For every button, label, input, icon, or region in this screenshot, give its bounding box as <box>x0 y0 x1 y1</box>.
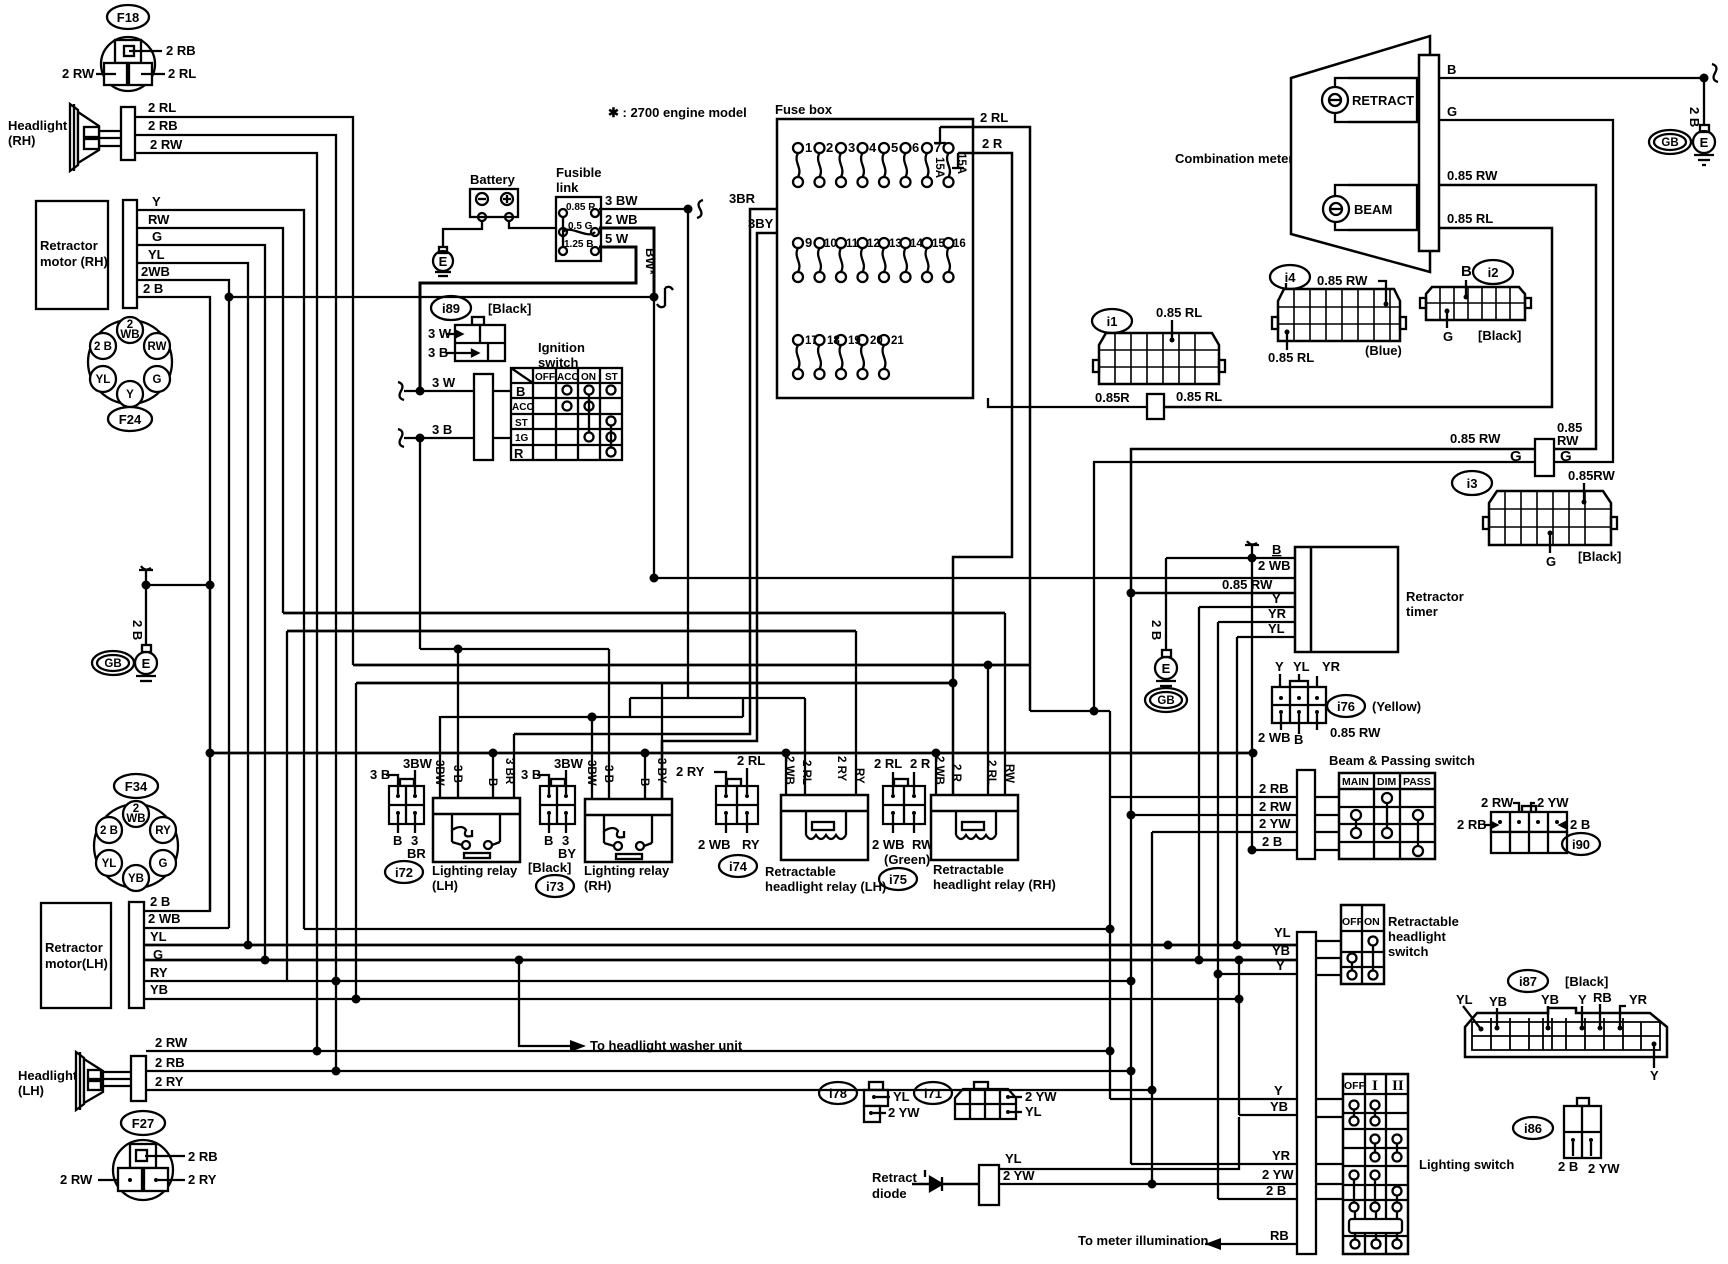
wire 2YW vertical <box>1151 832 1153 1184</box>
wire 2RL from fuse box <box>934 110 1030 711</box>
svg-text:2 RB: 2 RB <box>148 118 178 133</box>
svg-text:G: G <box>1443 329 1453 344</box>
svg-text:2 RW: 2 RW <box>1259 799 1292 814</box>
wire 3BW drop to relays <box>687 209 689 698</box>
svg-text:5 W: 5 W <box>605 231 629 246</box>
svg-text:Y: Y <box>1650 1068 1659 1083</box>
svg-text:2 B: 2 B <box>130 620 145 640</box>
svg-text:i78: i78 <box>829 1086 847 1101</box>
svg-text:YL: YL <box>150 929 167 944</box>
svg-text:YL: YL <box>1268 621 1285 636</box>
svg-text:motor(LH): motor(LH) <box>45 956 108 971</box>
wire 2B retractor LH <box>144 585 210 911</box>
svg-text:RY: RY <box>853 768 865 784</box>
svg-text:i87: i87 <box>1519 974 1537 989</box>
connector i86 <box>1513 1098 1620 1176</box>
wire B from combination meter <box>1439 62 1704 78</box>
wire YL retractor LH <box>150 929 167 944</box>
svg-text:0.85 RW: 0.85 RW <box>1450 431 1501 446</box>
svg-text:YB: YB <box>1541 992 1559 1007</box>
svg-text:(LH): (LH) <box>432 878 458 893</box>
svg-text:Battery: Battery <box>470 172 516 187</box>
svg-text:(RH): (RH) <box>584 878 611 893</box>
connector i74 <box>676 753 765 877</box>
svg-text:OFF: OFF <box>1344 1080 1366 1092</box>
junction at fusible link drop <box>650 293 659 302</box>
svg-text:2 B: 2 B <box>150 894 170 909</box>
svg-text:Y: Y <box>1274 1083 1283 1098</box>
wire YB retractor LH <box>144 982 1244 1004</box>
wire YL retractor RH <box>137 247 248 946</box>
svg-text:(Yellow): (Yellow) <box>1372 699 1421 714</box>
svg-text:2 YW: 2 YW <box>1262 1167 1294 1182</box>
svg-text:Y: Y <box>126 389 134 401</box>
connector i73 <box>521 756 584 897</box>
wire RW net to relay LH RY <box>855 631 857 795</box>
svg-text:17: 17 <box>805 335 818 347</box>
svg-text:2 B: 2 B <box>1262 834 1282 849</box>
connector bar bottom right <box>1297 932 1316 1254</box>
ground GB oval left <box>92 651 134 675</box>
svg-text:(LH): (LH) <box>18 1083 44 1098</box>
junction 2WB i75 <box>932 749 941 758</box>
wire 3BW from fusible link <box>599 193 688 209</box>
svg-text:3 B: 3 B <box>370 767 390 782</box>
svg-text:3: 3 <box>848 140 855 155</box>
wire Y to retract switch <box>1218 958 1341 975</box>
junction RY retractor LH <box>332 977 341 986</box>
svg-text:2 WB: 2 WB <box>933 756 945 785</box>
svg-text:2 YW: 2 YW <box>1259 816 1291 831</box>
svg-text:YB: YB <box>128 873 144 885</box>
svg-text:YL: YL <box>1274 925 1291 940</box>
junction B relay LH <box>489 749 498 758</box>
ground E left <box>135 645 157 681</box>
svg-text:0.85 RW: 0.85 RW <box>1447 168 1498 183</box>
svg-text:To meter illumination: To meter illumination <box>1078 1233 1209 1248</box>
svg-text:Fuse box: Fuse box <box>775 102 833 117</box>
svg-text:F27: F27 <box>132 1116 154 1131</box>
inline connector 0.85R/0.85RL <box>1147 394 1164 419</box>
wire Y to timer <box>1199 591 1295 607</box>
svg-text:2 R: 2 R <box>950 764 962 783</box>
continuation mark 3BW <box>697 200 703 218</box>
svg-text:9: 9 <box>805 235 812 250</box>
svg-text:2 YW: 2 YW <box>888 1105 920 1120</box>
svg-text:F18: F18 <box>117 10 139 25</box>
svg-text:4: 4 <box>869 140 877 155</box>
svg-text:2 RW: 2 RW <box>150 137 183 152</box>
wire 0.85RW net vertical lower <box>1130 593 1132 1164</box>
svg-text:WB: WB <box>120 329 139 341</box>
svg-text:RB: RB <box>1593 990 1612 1005</box>
svg-text:2 RY: 2 RY <box>188 1172 217 1187</box>
svg-text:2 RW: 2 RW <box>155 1035 188 1050</box>
svg-text:YR: YR <box>1629 992 1648 1007</box>
svg-text:headlight relay (RH): headlight relay (RH) <box>933 877 1056 892</box>
lighting relay RH <box>584 758 672 893</box>
wire 3B net horizontal <box>420 648 609 650</box>
svg-text:[Black]: [Black] <box>528 860 571 875</box>
svg-text:15: 15 <box>932 238 945 250</box>
ground E right <box>1693 125 1715 165</box>
wire 0.85RW to timer <box>1131 577 1295 593</box>
wire 2RB to beam switch <box>1110 781 1339 797</box>
svg-text:2WB: 2WB <box>141 264 170 279</box>
svg-text:2 YW: 2 YW <box>1537 795 1569 810</box>
svg-text:2 YW: 2 YW <box>1588 1161 1620 1176</box>
svg-text:i76: i76 <box>1337 699 1355 714</box>
svg-text:GB: GB <box>104 658 121 670</box>
svg-text:3 W: 3 W <box>432 375 456 390</box>
svg-text:i89: i89 <box>442 301 460 316</box>
wire 2RW headlight RH <box>135 137 317 1051</box>
junction YB retract switch <box>1195 956 1204 965</box>
svg-text:5: 5 <box>891 140 898 155</box>
svg-text:i75: i75 <box>889 872 907 887</box>
svg-text:1.25 B: 1.25 B <box>564 239 593 250</box>
svg-text:Headlight: Headlight <box>18 1068 78 1083</box>
svg-text:2 WB: 2 WB <box>698 837 731 852</box>
svg-text:Y: Y <box>1272 591 1281 606</box>
svg-text:B: B <box>1461 263 1472 280</box>
svg-text:3 B: 3 B <box>432 422 452 437</box>
svg-text:PASS: PASS <box>1403 776 1431 788</box>
svg-text:RW: RW <box>148 341 167 353</box>
svg-text:3BW: 3BW <box>403 756 433 771</box>
combination meter <box>1175 36 1439 272</box>
svg-text:Lighting relay: Lighting relay <box>584 863 670 878</box>
wire 2B to beam switch <box>1252 834 1339 850</box>
junction YL retract switch <box>1164 941 1173 950</box>
ground E battery <box>433 247 453 276</box>
svg-text:0.85R: 0.85R <box>1095 390 1130 405</box>
svg-text:2 RY: 2 RY <box>835 756 847 781</box>
svg-text:2 RW: 2 RW <box>60 1172 93 1187</box>
svg-text:E: E <box>1162 661 1171 676</box>
connector F27 <box>60 1111 218 1200</box>
svg-text:2 WB: 2 WB <box>1258 730 1291 745</box>
svg-text:To headlight washer unit: To headlight washer unit <box>590 1038 743 1053</box>
svg-text:12: 12 <box>867 238 880 250</box>
wire 2B retractor RH <box>137 281 210 911</box>
wire YB to lighting switch <box>1235 956 1344 1118</box>
wire YR from timer down <box>1217 622 1219 974</box>
wire YR to lighting switch <box>1131 1148 1343 1164</box>
svg-text:link: link <box>556 180 579 195</box>
wire B to relay RH <box>644 753 646 799</box>
junction 2RB beam feed <box>1106 925 1115 934</box>
svg-text:0.85 RW: 0.85 RW <box>1222 577 1273 592</box>
svg-text:GB: GB <box>1661 137 1678 149</box>
svg-text:i4: i4 <box>1285 270 1297 285</box>
svg-text:Combination meter: Combination meter <box>1175 151 1293 166</box>
to headlight washer unit <box>519 960 743 1053</box>
svg-text:18: 18 <box>827 335 840 347</box>
svg-text:0.85 RL: 0.85 RL <box>1156 305 1202 320</box>
junction B bus left <box>206 749 215 758</box>
wire G run left from inline connector <box>1094 462 1535 711</box>
svg-text:2 RW: 2 RW <box>1481 795 1514 810</box>
ignition switch table <box>493 368 622 461</box>
wire 2RW to beam switch <box>1131 799 1339 815</box>
wire YR to timer <box>1218 606 1295 622</box>
svg-text:[Black]: [Black] <box>1578 549 1621 564</box>
svg-text:0.85 RL: 0.85 RL <box>1447 211 1493 226</box>
svg-text:10: 10 <box>824 238 837 250</box>
svg-text:2 WB: 2 WB <box>872 837 905 852</box>
wire 3BY from fuse box <box>662 216 777 799</box>
svg-text:diode: diode <box>872 1186 907 1201</box>
svg-text:0.85 RW: 0.85 RW <box>1330 725 1381 740</box>
wire 0.85RL from combination meter <box>1164 211 1552 407</box>
svg-text:switch: switch <box>1388 944 1429 959</box>
svg-text:I: I <box>1372 1078 1378 1094</box>
svg-text:YL: YL <box>893 1089 910 1104</box>
wire 0.85RW from combination meter <box>1439 168 1596 449</box>
svg-text:RY: RY <box>155 825 171 837</box>
svg-text:YL: YL <box>96 374 111 386</box>
wire 2B to lighting switch <box>1214 970 1344 1200</box>
retractor motor (RH) <box>36 200 137 309</box>
wire 2B to ground GB <box>1687 78 1704 127</box>
svg-text:YB: YB <box>1489 994 1507 1009</box>
svg-text:B: B <box>1447 62 1456 77</box>
connector i72 <box>370 756 433 883</box>
svg-text:Retractable: Retractable <box>1388 914 1459 929</box>
svg-text:Retractor: Retractor <box>40 238 98 253</box>
wire 2RL net junction drop to relay RH <box>987 665 989 795</box>
junction B <box>1700 74 1709 83</box>
svg-text:F34: F34 <box>125 779 148 794</box>
svg-text:0.85 RL: 0.85 RL <box>1268 350 1314 365</box>
svg-text:13: 13 <box>889 238 902 250</box>
svg-text:2 WB: 2 WB <box>1258 558 1291 573</box>
retractable headlight switch <box>1341 905 1459 984</box>
wire 2RB headlight RH <box>135 118 336 1071</box>
svg-text:15A: 15A <box>955 153 967 174</box>
svg-text:R: R <box>514 446 524 461</box>
svg-text:2 B: 2 B <box>143 281 163 296</box>
svg-text:2 YW: 2 YW <box>1025 1089 1057 1104</box>
svg-text:3BY: 3BY <box>748 216 774 231</box>
svg-text:2 R: 2 R <box>982 136 1003 151</box>
svg-text:3BR: 3BR <box>729 191 756 206</box>
wire 2RY headlight LH <box>146 1074 1157 1095</box>
connector F34 <box>94 774 178 891</box>
svg-text:19: 19 <box>848 335 861 347</box>
svg-text:Lighting switch: Lighting switch <box>1419 1157 1514 1172</box>
wire 3BY to relay RH <box>661 683 663 799</box>
junction 2RW headlight LH <box>313 1047 322 1056</box>
svg-text:RY: RY <box>742 837 760 852</box>
svg-text:B: B <box>544 833 553 848</box>
wire 2WB run to battery area <box>229 296 654 298</box>
battery <box>470 172 518 221</box>
svg-text:2 WB: 2 WB <box>783 756 795 785</box>
svg-text:Retractor: Retractor <box>1406 589 1464 604</box>
junction 3BW <box>684 205 693 214</box>
svg-text:(Green): (Green) <box>884 852 930 867</box>
fuses 9-16 <box>793 235 966 282</box>
svg-text:YL: YL <box>148 247 165 262</box>
svg-text:2 RY: 2 RY <box>155 1074 184 1089</box>
svg-text:Y: Y <box>1578 992 1587 1007</box>
svg-text:2 WB: 2 WB <box>605 212 638 227</box>
svg-text:YR: YR <box>1322 659 1341 674</box>
svg-text:2 RL: 2 RL <box>980 110 1008 125</box>
wire 2WB net drop to B line <box>653 297 655 578</box>
junction 2RL relay RH <box>984 661 993 670</box>
fusible link <box>556 165 602 261</box>
svg-text:2 RL: 2 RL <box>148 100 176 115</box>
wire G retractor LH <box>153 947 163 962</box>
svg-text:YL: YL <box>1025 1104 1042 1119</box>
junction 2B beam <box>1248 846 1257 855</box>
svg-text:i86: i86 <box>1524 1121 1542 1136</box>
svg-text:G: G <box>1447 104 1457 119</box>
svg-text:i1: i1 <box>1107 314 1118 329</box>
svg-text:YL: YL <box>1456 992 1473 1007</box>
junction 2WB/2B <box>225 293 234 302</box>
wire YL to timer <box>1237 621 1295 637</box>
svg-text:BY: BY <box>558 846 576 861</box>
svg-text:G: G <box>153 947 163 962</box>
retract diode <box>872 1117 1239 1205</box>
svg-text:2 B: 2 B <box>1149 620 1164 640</box>
svg-text:Fusible: Fusible <box>556 165 602 180</box>
svg-text:B: B <box>1272 542 1281 557</box>
wire RB to lighting switch / to meter illumination <box>1205 1228 1297 1244</box>
connector i2 <box>1420 260 1531 344</box>
svg-text:[Black]: [Black] <box>488 301 531 316</box>
fuses 1-8 <box>793 140 967 187</box>
junction 0.85RW timer <box>1127 589 1136 598</box>
wire 2RL headlight RH <box>135 100 353 665</box>
svg-text:headlight relay (LH): headlight relay (LH) <box>765 879 886 894</box>
svg-text:G: G <box>152 229 162 244</box>
svg-text:2 B: 2 B <box>1570 817 1590 832</box>
indicator RETRACT <box>1322 78 1419 122</box>
ground stub 2B left <box>130 566 210 645</box>
wire battery minus to ground E <box>443 221 482 247</box>
svg-text:YR: YR <box>1272 1148 1291 1163</box>
svg-text:Y: Y <box>152 194 161 209</box>
wire 3BW to relay LH <box>439 716 441 798</box>
ignition switch connector bar <box>474 374 493 460</box>
connector i1 <box>1092 305 1225 405</box>
svg-text:21: 21 <box>891 335 904 347</box>
svg-text:1: 1 <box>805 140 812 155</box>
svg-text:Retract: Retract <box>872 1170 917 1185</box>
svg-text:(Blue): (Blue) <box>1365 343 1402 358</box>
wire 2B timer to ground <box>1149 558 1166 650</box>
connector i76 <box>1258 659 1421 747</box>
wire battery plus to fusible link <box>509 221 556 228</box>
wire 2WB to relay i74 <box>785 753 787 795</box>
svg-text:2 WB: 2 WB <box>148 911 181 926</box>
wire 3W to ignition switch <box>398 375 474 400</box>
ground E timer <box>1155 650 1177 686</box>
svg-text:ON: ON <box>581 372 596 383</box>
to meter illumination arrow <box>1078 1233 1221 1250</box>
svg-text:3BW: 3BW <box>554 756 584 771</box>
wire 0.85RW run left to timer area <box>1131 449 1535 593</box>
connector F18 <box>62 5 196 91</box>
svg-text:0.85 RL: 0.85 RL <box>1176 389 1222 404</box>
wire B to timer <box>1166 541 1295 558</box>
svg-text:II: II <box>1392 1078 1404 1094</box>
svg-text:2 RB: 2 RB <box>166 43 196 58</box>
svg-text:(RH): (RH) <box>8 133 35 148</box>
svg-text:BW*: BW* <box>643 248 658 276</box>
wire B bus <box>210 752 1253 755</box>
svg-text:E: E <box>1700 135 1709 150</box>
ground GB oval right <box>1649 130 1691 154</box>
wire RW retractor RH <box>137 212 283 613</box>
svg-text:headlight: headlight <box>1388 929 1446 944</box>
wire Y net horizontal <box>283 612 1005 615</box>
ground GB oval timer <box>1145 688 1187 712</box>
svg-text:i90: i90 <box>1572 837 1590 852</box>
svg-text:3 B: 3 B <box>521 767 541 782</box>
wire Y from timer down <box>1198 607 1200 959</box>
svg-text:F24: F24 <box>119 412 142 427</box>
svg-text:2 RB: 2 RB <box>188 1149 218 1164</box>
wire YL to retract switch <box>144 925 1341 945</box>
connector i90 <box>1457 795 1600 855</box>
svg-text:Lighting relay: Lighting relay <box>432 863 518 878</box>
svg-text:i3: i3 <box>1467 476 1478 491</box>
svg-text:Beam & Passing switch: Beam & Passing switch <box>1329 753 1475 768</box>
svg-text:DIM: DIM <box>1377 776 1397 788</box>
svg-text:2 R: 2 R <box>910 756 931 771</box>
svg-text:0.85 RW: 0.85 RW <box>1317 273 1368 288</box>
wire G from combination meter <box>1439 104 1613 462</box>
svg-text:16: 16 <box>953 238 966 250</box>
svg-text:G: G <box>159 858 168 870</box>
wire 3BW jog segments <box>630 697 805 699</box>
svg-text:YL: YL <box>102 858 117 870</box>
svg-text:i74: i74 <box>729 859 748 874</box>
svg-text:2 RL: 2 RL <box>874 756 902 771</box>
svg-text:2 RB: 2 RB <box>1457 817 1487 832</box>
svg-text:YR: YR <box>1268 606 1287 621</box>
svg-text:2 B: 2 B <box>100 825 118 837</box>
svg-text:ACC: ACC <box>557 372 579 383</box>
svg-text:B: B <box>393 833 402 848</box>
svg-text:RY: RY <box>150 965 168 980</box>
inline connector G/0.85RW <box>1450 420 1582 476</box>
wire 3BW to relay RH <box>591 717 593 799</box>
svg-text:Retractable: Retractable <box>933 862 1004 877</box>
junction 2B stub <box>142 581 151 590</box>
wire 2WB to timer <box>655 558 1295 578</box>
svg-text:BR: BR <box>407 846 426 861</box>
svg-text:2 RL: 2 RL <box>737 753 765 768</box>
wire 2WB to relay i75 <box>935 753 937 795</box>
svg-text:6: 6 <box>912 140 919 155</box>
junction 2WB i74 <box>782 749 791 758</box>
wire RY retractor LH <box>144 965 1131 981</box>
wire 5W from fusible link <box>420 231 658 391</box>
svg-text:B: B <box>1294 732 1303 747</box>
wire 2YW to lighting switch <box>999 1167 1343 1184</box>
lighting relay LH <box>432 758 520 893</box>
wire B to relay LH <box>492 753 494 798</box>
connector i89 <box>428 296 531 361</box>
svg-text:✱ : 2700 engine model: ✱ : 2700 engine model <box>608 105 747 120</box>
